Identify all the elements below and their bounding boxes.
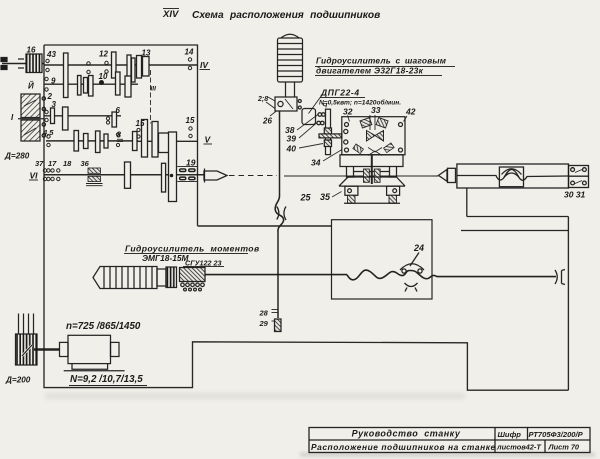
svg-text:29: 29 <box>259 319 269 328</box>
svg-text:Гидроусилитель моментов: Гидроусилитель моментов <box>125 244 260 254</box>
svg-text:30 31: 30 31 <box>564 190 586 200</box>
svg-text:Гидроусилитель с шаговым: Гидроусилитель с шаговым <box>316 56 447 66</box>
svg-text:Д=200: Д=200 <box>5 376 31 385</box>
svg-text:15: 15 <box>186 116 195 125</box>
svg-text:РТ705Ф3/200/Р: РТ705Ф3/200/Р <box>529 430 584 439</box>
svg-text:35: 35 <box>320 192 331 202</box>
svg-text:18: 18 <box>63 159 72 168</box>
svg-text:ДПГ22-4: ДПГ22-4 <box>320 88 360 98</box>
svg-text:III: III <box>151 86 157 93</box>
svg-text:40: 40 <box>286 144 297 154</box>
svg-text:двигателем Э32Г18-23к: двигателем Э32Г18-23к <box>316 66 424 76</box>
svg-text:ЭМГ18-15М: ЭМГ18-15М <box>142 253 190 263</box>
svg-text:19: 19 <box>186 158 196 168</box>
svg-text:32: 32 <box>343 107 353 117</box>
svg-text:4,5: 4,5 <box>42 128 54 137</box>
svg-text:n=725 /865/1450: n=725 /865/1450 <box>66 321 141 332</box>
svg-text:Руководство станку: Руководство станку <box>352 429 461 439</box>
svg-text:15: 15 <box>136 119 145 128</box>
svg-text:42: 42 <box>405 107 416 117</box>
svg-text:25: 25 <box>300 193 312 203</box>
svg-text:24: 24 <box>413 243 424 253</box>
svg-text:37: 37 <box>35 159 44 168</box>
svg-text:Лист 70: Лист 70 <box>548 443 580 452</box>
svg-text:36: 36 <box>81 159 90 168</box>
svg-text:листов42-Т: листов42-Т <box>496 443 542 452</box>
svg-text:СГУ122 23: СГУ122 23 <box>185 259 221 268</box>
svg-text:33: 33 <box>371 105 381 115</box>
svg-text:Схема расположения подшипников: Схема расположения подшипников <box>192 10 380 21</box>
svg-text:9: 9 <box>51 77 56 86</box>
svg-text:6: 6 <box>116 106 121 115</box>
svg-text:2;8: 2;8 <box>257 96 268 103</box>
svg-text:13: 13 <box>142 49 151 58</box>
svg-text:Й: Й <box>28 82 34 91</box>
svg-text:VI: VI <box>30 171 39 181</box>
svg-text:28: 28 <box>259 309 269 318</box>
svg-text:N=0,5квт; n=1420об/мин.: N=0,5квт; n=1420об/мин. <box>319 99 401 107</box>
svg-text:34: 34 <box>311 158 321 168</box>
svg-text:17: 17 <box>48 159 57 168</box>
svg-text:8: 8 <box>117 131 122 140</box>
svg-text:Д=280: Д=280 <box>4 152 30 161</box>
svg-text:Ч: Ч <box>323 103 328 110</box>
svg-text:43: 43 <box>46 50 56 59</box>
svg-text:IV: IV <box>200 60 209 70</box>
svg-text:16: 16 <box>27 46 36 55</box>
svg-text:Расположение подшипников на ст: Расположение подшипников на станке <box>311 442 496 452</box>
svg-text:3: 3 <box>52 100 57 109</box>
svg-text:Шифр: Шифр <box>498 430 522 439</box>
svg-text:XIV: XIV <box>162 9 179 20</box>
svg-text:12: 12 <box>99 50 108 59</box>
svg-text:14: 14 <box>185 48 194 57</box>
svg-text:10: 10 <box>99 72 108 81</box>
svg-text:39: 39 <box>287 134 297 144</box>
svg-text:26: 26 <box>262 117 272 126</box>
svg-text:N=9,2 /10,7/13,5: N=9,2 /10,7/13,5 <box>70 374 143 385</box>
